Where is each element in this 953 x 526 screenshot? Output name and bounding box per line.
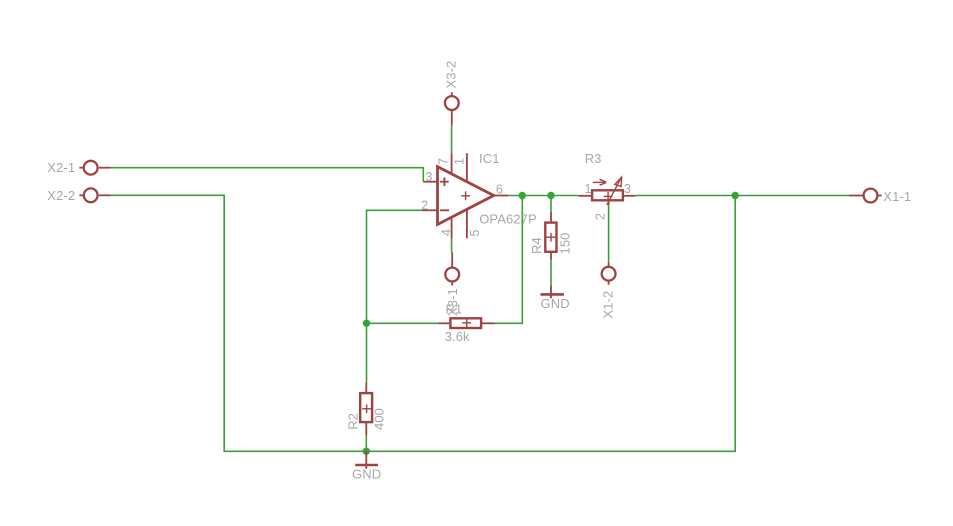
svg-text:400: 400 (372, 408, 387, 430)
resistor R2 top stub (365, 383, 367, 394)
wire R2 bottom to ground rail (365, 436, 367, 452)
svg-text:X2-2: X2-2 (47, 188, 75, 203)
wire R3 pin3 to X1-1 (635, 195, 849, 197)
svg-text:1: 1 (585, 182, 592, 196)
wire inverting node down to R2 (366, 323, 368, 382)
svg-text:X3-2: X3-2 (444, 61, 459, 89)
op-amp pin2 stub (422, 209, 437, 211)
pin X2-1 (79, 161, 110, 175)
svg-text:OPA627P: OPA627P (479, 211, 537, 226)
pin X3-1 (445, 253, 459, 286)
pin X1-1 (849, 189, 882, 203)
svg-text:150: 150 (558, 233, 573, 255)
resistor R1 origin cross (462, 318, 471, 327)
op-amp pin1 stub (466, 153, 468, 181)
junction dot output-R4 (547, 192, 554, 199)
trimmer R3 adjust arrow (593, 179, 606, 185)
op-amp plus input mark (440, 177, 449, 186)
svg-text:X2-1: X2-1 (47, 160, 75, 175)
svg-text:X1-2: X1-2 (601, 291, 616, 319)
op-amp minus input mark (440, 209, 449, 211)
svg-text:2: 2 (421, 199, 428, 213)
trimmer R3 wiper diagonal arrow shaft (607, 177, 622, 205)
svg-text:5: 5 (468, 229, 482, 236)
pin X2-2 (79, 188, 110, 202)
wire output junction down to R4 (550, 196, 552, 212)
trimmer R3 wiper pin2 stub (608, 200, 610, 205)
op-amp pin4 stub (451, 218, 453, 239)
ground GND at R2 rail (355, 451, 378, 469)
wire R3 pin2 down to X1-2 (608, 205, 610, 262)
trimmer R3 origin cross (604, 192, 613, 201)
svg-text:1: 1 (453, 158, 467, 165)
op-amp pin3 stub (423, 181, 437, 183)
resistor R4 body (545, 223, 556, 252)
junction dot inverting node (363, 320, 370, 327)
wire feedback vertical from output junction to R1 level (495, 196, 522, 324)
svg-text:GND: GND (352, 466, 381, 481)
junction dot X1-1 ground rail (732, 192, 739, 199)
pin X3-2 (445, 92, 459, 125)
svg-text:3: 3 (624, 182, 631, 196)
svg-text:R3: R3 (585, 151, 602, 166)
resistor R1 left stub (438, 322, 450, 324)
wire R1 to inverting node (367, 322, 439, 324)
junction dot ground rail at R2 (363, 448, 370, 455)
op-amp pin7 stub (451, 153, 453, 174)
trimmer R3 left stub (578, 195, 592, 197)
trimmer R3 wiper arrowhead (615, 177, 622, 186)
resistor R1 right stub (481, 322, 495, 324)
op-amp origin cross (461, 191, 470, 200)
svg-text:X1-1: X1-1 (883, 189, 911, 204)
svg-text:7: 7 (437, 158, 451, 165)
resistor R2 bottom stub (365, 422, 367, 436)
svg-text:3: 3 (426, 170, 433, 184)
wire op-amp pin4 down to X3-1 (451, 238, 453, 252)
svg-text:IC1: IC1 (479, 151, 500, 166)
svg-text:GND: GND (541, 296, 570, 311)
wire X3-2 pin down to op-amp pin7 (451, 125, 453, 153)
resistor R4 bottom stub (550, 252, 552, 260)
wire op-amp output to R3 pin1 (508, 195, 578, 197)
svg-text:2: 2 (594, 213, 608, 220)
trimmer R3 body (592, 190, 623, 200)
svg-text:3.6k: 3.6k (445, 329, 470, 344)
svg-text:R2: R2 (346, 413, 361, 430)
svg-text:4: 4 (440, 229, 454, 236)
wire R4 to GND (550, 260, 552, 286)
pin X1-2 (602, 263, 616, 285)
ground GND below R4 (541, 285, 564, 298)
op-amp IC1 triangle (438, 167, 494, 225)
resistor R4 origin cross (547, 233, 556, 242)
trimmer R3 right stub (623, 195, 636, 197)
resistor R2 origin cross (362, 404, 371, 413)
wire inverting node up to op-amp pin2 (367, 210, 423, 323)
svg-text:R1: R1 (446, 302, 463, 317)
op-amp pin5 stub (466, 210, 468, 239)
wire net X2-2 left-bottom loop to output junction (111, 195, 735, 451)
resistor R1 body (450, 318, 481, 328)
resistor R2 body (360, 393, 372, 422)
svg-text:R4: R4 (529, 237, 544, 254)
svg-text:6: 6 (496, 183, 503, 197)
wire net X2-1 to op-amp pin3 (111, 168, 424, 182)
resistor R4 top stub (550, 212, 552, 223)
op-amp pin6 output stub (494, 195, 509, 197)
junction dot output-feedback (519, 192, 526, 199)
